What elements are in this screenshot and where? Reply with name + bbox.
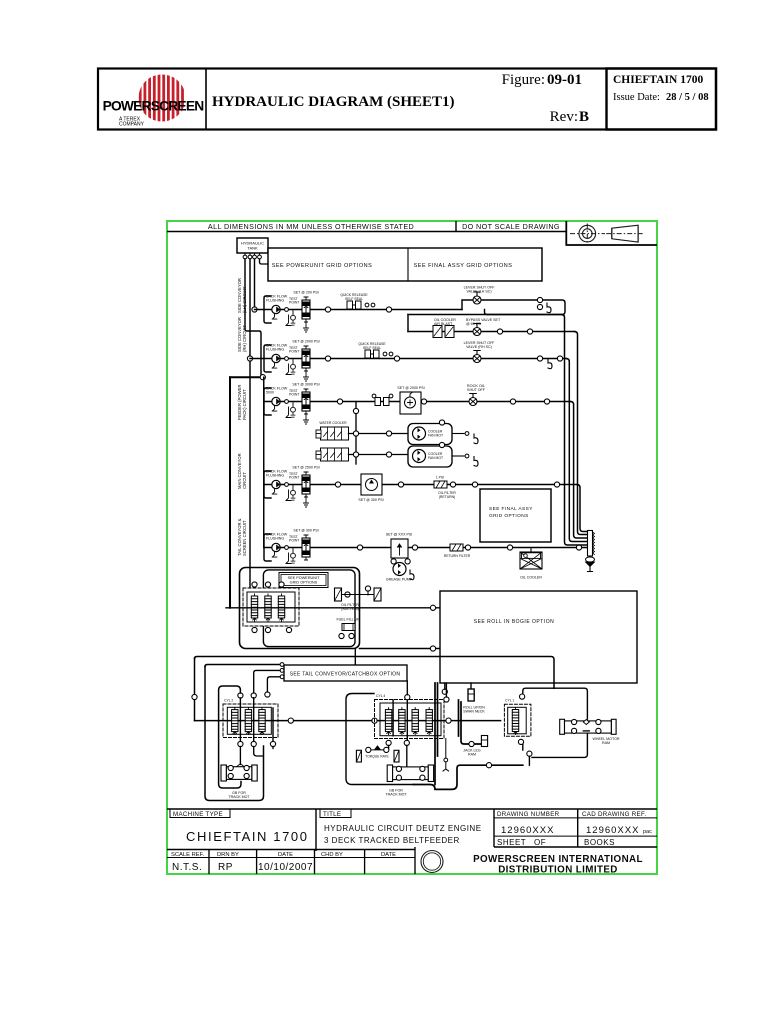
projection symbol circle: [570, 224, 605, 244]
svg-text:CHIEFTAIN 1700: CHIEFTAIN 1700: [186, 829, 309, 844]
node row4 junction: [335, 482, 340, 487]
svg-text:DRN BY: DRN BY: [217, 852, 239, 858]
svg-text:SEE POWERUNIT: SEE POWERUNIT: [288, 576, 321, 580]
see powerunit grid options small box: [279, 573, 328, 588]
pump row1: [272, 305, 280, 319]
node fan top ports: [439, 420, 444, 425]
wire return header drop: [407, 315, 409, 332]
node tail box ports: [280, 663, 284, 667]
svg-text:CIRCUIT: CIRCUIT: [242, 472, 247, 489]
wire fan2 link: [349, 454, 409, 456]
wire bank2 top feeds: [407, 681, 446, 697]
drain row4 relief: [304, 496, 309, 507]
svg-text:Figure:: Figure:: [502, 72, 545, 88]
spool bank1 a: [232, 708, 238, 735]
powerunit grid options box: [268, 248, 542, 281]
svg-text:DATE: DATE: [381, 852, 396, 858]
wire second trunk down: [249, 356, 251, 592]
svg-text:POINT: POINT: [289, 350, 299, 354]
svg-text:CAD DRAWING REF.: CAD DRAWING REF.: [582, 811, 646, 818]
track motor cylinder left: [356, 750, 361, 762]
relief valve row2: [302, 346, 310, 371]
node row1 supply junction: [252, 307, 257, 312]
wire fan2 out: [452, 455, 464, 457]
wire trunk D: [577, 485, 588, 532]
svg-text:SEE FINAL ASSY: SEE FINAL ASSY: [489, 506, 533, 512]
drawing number cell divider: [493, 809, 495, 847]
solenoid valve block fan1: [321, 427, 349, 440]
wire tank to grid box: [260, 259, 269, 264]
wheel ram top fitting: [583, 720, 589, 725]
wire tracks through line: [195, 720, 501, 722]
roll ram accumulator: [468, 683, 474, 701]
svg-text:CHIEFTAIN 1700: CHIEFTAIN 1700: [613, 74, 703, 86]
bank1 inner box: [227, 707, 271, 734]
node row2 junction b: [394, 356, 399, 361]
svg-text:TORQUE RATE: TORQUE RATE: [365, 755, 389, 759]
node row3 coupler circles: [389, 394, 393, 398]
svg-text:SET @ 3000 PSI: SET @ 3000 PSI: [292, 383, 319, 387]
drain curl grease pump: [410, 570, 414, 580]
svg-text:POWERSCREEN INTERNATIONAL: POWERSCREEN INTERNATIONAL: [473, 854, 643, 865]
node row2 junction: [325, 356, 330, 361]
wire trunk B: [575, 332, 588, 535]
hand pump box row4: [361, 474, 382, 495]
spool powerunit 2: [265, 594, 271, 621]
svg-text:FLUSHING: FLUSHING: [266, 299, 284, 303]
svg-text:DO NOT SCALE DRAWING: DO NOT SCALE DRAWING: [462, 222, 560, 231]
drain stub bank2: [443, 739, 449, 771]
wire trunk A: [562, 315, 588, 546]
tank port circles: [243, 253, 261, 259]
bank3 routing loop bottom: [523, 734, 588, 757]
bank3 dashed box: [504, 704, 531, 736]
node oc junctions: [497, 329, 502, 334]
title block outer lines: [167, 808, 657, 810]
relief valve row1: [302, 297, 310, 322]
svg-text:Issue Date:: Issue Date:: [613, 92, 660, 103]
svg-text:5000: 5000: [266, 391, 274, 395]
node fan junctions: [386, 431, 391, 436]
coupler row4 return filter: [434, 481, 447, 488]
wire bank2 bottom heavy link: [414, 765, 523, 789]
drain row1 pump: [286, 315, 291, 326]
svg-text:pac: pac: [643, 829, 652, 835]
pressure reducer box row3: [400, 392, 421, 414]
spool bank1 c: [259, 708, 265, 735]
svg-text:VALVE (LH SC): VALVE (LH SC): [466, 290, 491, 294]
drain curl fan2: [474, 457, 478, 467]
shutoff valve row2: [473, 351, 481, 363]
svg-text:CHD BY: CHD BY: [321, 852, 343, 858]
wire row3 main line: [264, 401, 571, 403]
machine type label box: [170, 809, 230, 818]
test point row2: [289, 346, 299, 374]
header outer box: [98, 69, 716, 130]
bypass valve row oc: [473, 324, 481, 336]
svg-text:FLUSHING: FLUSHING: [266, 537, 284, 541]
svg-text:12960XXX: 12960XXX: [586, 825, 639, 836]
oil cooler diamond: [520, 552, 542, 569]
wire powerunit through line: [226, 607, 440, 609]
node drain stub circles: [444, 758, 448, 762]
svg-text:(RETURN): (RETURN): [439, 495, 455, 499]
title label box: [320, 809, 351, 818]
node tracks line junctions: [288, 718, 293, 723]
track motor tees: [366, 746, 389, 753]
motor fan2 enclosure: [408, 446, 452, 467]
svg-text:SET @ 2000 PSI: SET @ 2000 PSI: [397, 386, 424, 390]
svg-text:SET @ 2500 PSI: SET @ 2500 PSI: [292, 466, 319, 470]
svg-text:Rev:: Rev:: [550, 109, 578, 125]
track motor cylinder right: [394, 750, 399, 762]
svg-text:SEE ROLL IN BOGIE OPTION: SEE ROLL IN BOGIE OPTION: [474, 619, 554, 625]
node powerunit line junction: [430, 605, 435, 610]
node row3 junction b: [421, 399, 426, 404]
wire row4 return bracket: [264, 471, 271, 498]
svg-text:POINT: POINT: [289, 476, 299, 480]
node suction filter circles: [345, 592, 350, 597]
jack leg cylinder: [481, 736, 487, 747]
wire bank1 left return leg: [219, 721, 241, 788]
wire bank1 top feeds: [254, 670, 280, 693]
svg-text:CYL 1: CYL 1: [505, 699, 514, 703]
svg-text:GRID OPTIONS: GRID OPTIONS: [489, 513, 529, 519]
spool bank1 b: [245, 708, 251, 735]
wire row2 return bracket: [264, 345, 271, 372]
svg-text:FAN MOT: FAN MOT: [428, 456, 443, 460]
drain curl row2: [548, 359, 552, 369]
node fuel pump ports: [339, 633, 344, 638]
fitting fan2 left: [316, 451, 321, 459]
bank3 inner box: [508, 707, 527, 734]
test point row3: [289, 389, 299, 417]
wire row5 return bracket: [264, 534, 271, 561]
svg-text:3 DECK TRACKED BELTFEEDER: 3 DECK TRACKED BELTFEEDER: [324, 836, 460, 845]
node bottom left drop junction: [192, 694, 197, 699]
svg-text:SCREEN CIRCUIT: SCREEN CIRCUIT: [242, 520, 247, 556]
svg-text:PACK) CIRCUIT: PACK) CIRCUIT: [242, 389, 247, 420]
wire tank drop C elbow: [245, 259, 261, 377]
svg-text:SEE POWERUNIT GRID OPTIONS: SEE POWERUNIT GRID OPTIONS: [272, 263, 373, 269]
grease pump motor: [393, 563, 406, 576]
node fan1 out: [465, 432, 469, 436]
svg-text:RAM: RAM: [602, 741, 610, 745]
powerunit routing loop inner: [263, 570, 355, 647]
fuel fill pump: [342, 624, 355, 631]
svg-text:SHUT OFF: SHUT OFF: [467, 388, 486, 392]
wire bank2 heavy returns left: [435, 683, 438, 785]
node bank2 top ports: [405, 695, 410, 700]
svg-text:AIR BLAST: AIR BLAST: [434, 322, 453, 326]
wire tank drop A: [254, 259, 256, 307]
svg-text:DRAWING NUMBER: DRAWING NUMBER: [497, 811, 560, 818]
node row3 junction: [337, 399, 342, 404]
spool powerunit 3: [278, 594, 284, 621]
wheel motor ram cylinder: [560, 719, 616, 734]
wire bank1 bottom drops: [240, 747, 273, 765]
svg-text:@ 65 PSI: @ 65 PSI: [466, 322, 481, 326]
node fan supply tap: [353, 408, 358, 413]
svg-text:SELF SEAL: SELF SEAL: [345, 297, 363, 301]
node fan2 out: [465, 454, 469, 458]
see tail conveyor catchbox option box: [284, 665, 407, 681]
svg-text:FAN MOT: FAN MOT: [428, 434, 443, 438]
manifold comb: [588, 531, 595, 557]
fitting fan1 left: [316, 430, 321, 438]
svg-text:POINT: POINT: [289, 301, 299, 305]
node row5 junctions far right: [507, 545, 512, 550]
node row1 junction b: [386, 307, 391, 312]
svg-text:RP: RP: [218, 862, 233, 873]
svg-text:N.T.S.: N.T.S.: [172, 862, 202, 873]
wire return header top: [408, 314, 562, 316]
svg-text:FUEL FILL UP: FUEL FILL UP: [336, 618, 360, 622]
wire row4 main line: [264, 484, 577, 486]
svg-text:(LH) CIRCUIT: (LH) CIRCUIT: [242, 286, 247, 313]
hydraulic tank: [237, 238, 268, 253]
node bank1 top ports: [238, 693, 243, 698]
svg-text:CYL 2: CYL 2: [224, 699, 233, 703]
wire fan cluster supply from feeder row: [355, 402, 357, 465]
drain row3 pump: [286, 407, 291, 418]
wire suction header: [230, 376, 264, 378]
spool bank2 d: [426, 708, 432, 735]
svg-text:FLUSHING: FLUSHING: [266, 348, 284, 352]
bank3 routing loop: [523, 688, 588, 719]
svg-text:VALVE (RH SC): VALVE (RH SC): [466, 345, 492, 349]
bank2 inner box: [380, 703, 441, 736]
node fan supply crossings: [353, 431, 358, 436]
node row3 pump out: [285, 400, 289, 404]
pump row3: [272, 397, 280, 411]
drain row5 pump: [286, 553, 291, 564]
node row4 junction b: [398, 482, 403, 487]
wire row1 main line: [255, 309, 463, 311]
svg-text:TITLE: TITLE: [323, 811, 341, 818]
spool powerunit 1: [251, 594, 257, 621]
wire bottom header lower: [205, 665, 280, 667]
bottom row label underline: [167, 857, 415, 859]
breather under comb: [586, 557, 595, 572]
top note strip line: [167, 231, 566, 233]
svg-text:DATE: DATE: [278, 852, 293, 858]
wire powerunit loop to tail box: [354, 649, 356, 666]
svg-text:GRID OPTIONS: GRID OPTIONS: [290, 581, 318, 585]
motor fan2: [413, 450, 426, 463]
svg-text:POINT: POINT: [289, 393, 299, 397]
coupler row1: [347, 301, 361, 309]
node roll-in feed junction: [430, 646, 435, 651]
svg-text:SET @ 200 PSI: SET @ 200 PSI: [293, 291, 318, 295]
svg-text:09-01: 09-01: [547, 72, 582, 88]
projection symbol cone: [606, 225, 643, 242]
coupler row5 return filter: [450, 544, 463, 551]
cad ref divider: [577, 809, 579, 847]
svg-text:(RH) CIRCUIT: (RH) CIRCUIT: [242, 325, 247, 352]
shutoff valve row3: [469, 394, 477, 406]
bottom row column dividers: [209, 847, 415, 874]
svg-text:BOOKS: BOOKS: [584, 838, 615, 847]
svg-text:10/10/2007: 10/10/2007: [258, 862, 313, 873]
spool bank2 b: [399, 708, 405, 735]
svg-text:HYDRAULIC DIAGRAM (SHEET1): HYDRAULIC DIAGRAM (SHEET1): [212, 94, 455, 110]
test point row5: [289, 535, 299, 563]
drain row1 relief: [304, 321, 309, 332]
wire cooler drop: [530, 548, 532, 553]
node row3 junctions right: [510, 399, 515, 404]
wire fan1 link: [349, 433, 409, 435]
node row1 coupler circles: [365, 303, 369, 307]
wire trunk E: [571, 402, 588, 539]
oil cooler element: [433, 326, 454, 338]
node row2 pump out: [285, 357, 289, 361]
svg-text:CYL 4: CYL 4: [376, 694, 385, 698]
svg-text:HYDRAULIC CIRCUIT DEUTZ ENG: HYDRAULIC CIRCUIT DEUTZ ENGINE: [324, 824, 482, 833]
projection symbol box: [566, 221, 657, 245]
svg-text:RETURN FILTER: RETURN FILTER: [444, 554, 471, 558]
node bank3 ports: [520, 694, 525, 699]
powerunit routing loop: [240, 568, 360, 649]
svg-text:B: B: [579, 109, 589, 125]
wire bank1 through verticals: [240, 698, 273, 742]
node wheel ram ports: [572, 719, 577, 724]
bank2 dashed box: [375, 700, 445, 739]
powerscreen logo striped globe: [103, 74, 205, 128]
wire row1 return bracket: [264, 296, 271, 323]
svg-text:SHEET: SHEET: [497, 838, 526, 847]
svg-text:SET @ 300 PSI: SET @ 300 PSI: [293, 529, 318, 533]
wheel ram bottom fitting: [583, 730, 589, 732]
node row5 junctions right: [412, 545, 417, 550]
node row2 coupler circles: [383, 352, 387, 356]
drain row3 relief: [304, 413, 309, 424]
wire oil cooler row line: [408, 331, 575, 333]
svg-text:RAM: RAM: [468, 753, 476, 757]
node row1 return junctions: [537, 297, 542, 302]
node bank2 bottom ports: [404, 740, 409, 745]
powerunit bank dashed box: [243, 588, 299, 626]
node row2 return junctions: [537, 356, 542, 361]
wire row2 main line: [250, 358, 540, 360]
wire feeder spine: [263, 377, 265, 547]
node row2 supply junction: [247, 356, 252, 361]
svg-text:12960XXX: 12960XXX: [501, 825, 554, 836]
relief valve row5: [302, 535, 310, 560]
coupler row2: [365, 350, 379, 358]
wire roll-in feed lower: [360, 648, 441, 650]
node bank2 bottom link junction: [486, 763, 491, 768]
suction filter right: [374, 588, 381, 601]
company logo ellipse: [421, 851, 443, 873]
svg-text:OF: OF: [534, 838, 546, 847]
node track gearbox RH ports: [396, 766, 401, 771]
drain curl fan1: [474, 434, 478, 444]
wire trunk C: [566, 359, 587, 542]
pump row5: [272, 543, 280, 557]
wire bottom left drop B: [205, 667, 264, 801]
see final assy box: [480, 489, 551, 542]
spool bank2 a: [385, 708, 391, 735]
header right cell box: [607, 69, 717, 130]
node tracks line junction right: [446, 718, 451, 723]
node jack leg feed: [469, 741, 474, 746]
bottom info row top line: [167, 847, 657, 850]
svg-text:SEE TAIL CONVEYOR/CATCHBOX OPT: SEE TAIL CONVEYOR/CATCHBOX OPTION: [290, 672, 401, 678]
svg-text:GREASE PUMP: GREASE PUMP: [386, 578, 413, 582]
wire row5 main line: [264, 547, 588, 549]
node row5 junction: [357, 545, 362, 550]
node bank1 bottom ports: [238, 741, 243, 746]
test point row1: [289, 297, 299, 325]
pump row2: [272, 354, 280, 368]
powerunit bank inner box: [247, 592, 295, 622]
wire bank2 bottom drops: [389, 745, 407, 766]
wire fan1 out: [452, 433, 464, 435]
svg-text:SET @ XXX PSI: SET @ XXX PSI: [386, 533, 413, 537]
wire row1 shutoff branch: [462, 300, 565, 315]
track gearbox cylinder RH: [387, 765, 433, 782]
svg-text:SEE FINAL ASSY GRID OPTIONS: SEE FINAL ASSY GRID OPTIONS: [414, 263, 513, 269]
header logo cell divider: [205, 69, 207, 130]
node row5 pump out: [285, 546, 289, 550]
node track gearbox LH ports: [228, 765, 233, 770]
wire bank3 bottom drop: [528, 756, 530, 765]
svg-text:SWAN NECK: SWAN NECK: [463, 710, 485, 714]
drawing number label: [494, 817, 657, 819]
svg-text:TANK: TANK: [247, 246, 258, 251]
node row4 filter out: [450, 482, 455, 487]
motor fan1: [413, 427, 426, 440]
test point row4: [289, 472, 299, 500]
wire bottom left drop A: [194, 659, 196, 721]
drain row2 relief: [304, 370, 309, 381]
svg-text:28 / 5 / 08: 28 / 5 / 08: [666, 92, 709, 103]
svg-text:WATER COOLER: WATER COOLER: [319, 421, 347, 425]
svg-text:ALL DIMENSIONS IN MM UNLES: ALL DIMENSIONS IN MM UNLESS OTHERWISE ST…: [208, 222, 414, 231]
drain row2 pump: [286, 364, 291, 375]
node powerunit top ports: [252, 582, 257, 587]
drain curl row1: [547, 303, 551, 313]
wire filter link: [342, 591, 375, 595]
svg-text:FLUSHING: FLUSHING: [266, 474, 284, 478]
svg-text:TRACK MOT: TRACK MOT: [228, 795, 250, 799]
coupler row3: [375, 398, 389, 406]
node suction junction: [260, 375, 265, 380]
sheet of row: [494, 835, 657, 837]
wire bottom header upper: [195, 657, 555, 689]
wire row2 return corner: [540, 358, 566, 360]
svg-text:SET @ 2000 PSI: SET @ 2000 PSI: [292, 340, 319, 344]
top note strip divider: [455, 221, 457, 232]
track gearbox cylinder LH: [221, 764, 257, 781]
relief valve row3: [302, 389, 310, 414]
pump row4: [272, 480, 280, 494]
node row4 junctions right: [472, 482, 477, 487]
svg-text:1 PSI: 1 PSI: [436, 476, 444, 480]
wire bank1 top left hook: [219, 686, 241, 721]
node screen valve bottom ports: [391, 559, 396, 564]
svg-text:(SUCTION): (SUCTION): [341, 607, 359, 611]
title cell divider: [315, 809, 317, 851]
spool bank3: [512, 708, 518, 735]
wire tank drop B: [249, 259, 251, 356]
bank1 dashed box: [223, 704, 278, 738]
drain row4 pump: [286, 490, 291, 501]
screen relief valve box: [391, 539, 408, 558]
svg-text:MACHINE TYPE: MACHINE TYPE: [173, 811, 223, 818]
wire bank2 heavy returns right: [459, 700, 482, 744]
